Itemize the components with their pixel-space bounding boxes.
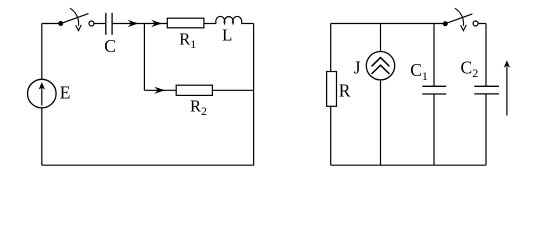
switch S1 blade <box>61 14 88 24</box>
label R1 <box>179 29 196 51</box>
source J lower chevron <box>372 65 390 74</box>
label J <box>354 58 361 78</box>
current arrow i1 (into R1) <box>151 20 162 27</box>
wire: L to top-right corner <box>241 23 253 25</box>
wire: right circuit bottom <box>331 164 486 166</box>
voltage arrow shaft (across C2) <box>506 67 508 116</box>
label C2 <box>461 58 479 81</box>
capacitor C1 bottom plate <box>422 93 446 95</box>
source E arrowhead <box>39 82 45 90</box>
switch S1 closing arc <box>70 8 79 26</box>
resistor R1 <box>167 18 204 28</box>
switch S2 open contact circle <box>473 21 478 26</box>
inductor L <box>216 16 242 23</box>
wire: C1 branch lower stub <box>433 94 435 165</box>
wire: right circuit left vertical (lower) <box>330 106 332 165</box>
source J upper chevron <box>372 58 390 67</box>
label R2 <box>190 97 207 119</box>
svg-text:L: L <box>222 26 232 45</box>
capacitor C2 top plate <box>474 85 499 87</box>
switch S1 pivot dot <box>58 21 63 26</box>
switch S1 open contact circle <box>89 21 94 26</box>
svg-text:C: C <box>104 36 116 56</box>
label R <box>339 81 351 101</box>
wire: R1 to L <box>204 23 216 25</box>
wire: left circuit left vertical (upper) <box>41 24 43 80</box>
voltage arrowhead (up) <box>504 60 510 68</box>
wire: left circuit top-left segment <box>42 23 59 25</box>
current source J <box>366 51 394 79</box>
svg-text:J: J <box>354 58 361 78</box>
capacitor C1 top plate <box>422 85 446 87</box>
current arrow i2 (into R2) <box>154 87 165 94</box>
switch S2 closing arc <box>455 8 464 26</box>
wire: left circuit bottom <box>42 164 254 166</box>
label E <box>60 83 71 103</box>
wire: C2 branch lower stub <box>485 94 487 165</box>
svg-text:E: E <box>60 83 71 103</box>
wire: left circuit left vertical (lower) <box>41 108 43 165</box>
resistor R <box>327 72 337 107</box>
wire: open contact to C2 corner <box>478 23 486 25</box>
wire: R2 to right vertical <box>212 89 253 91</box>
source E arrow shaft <box>41 87 43 106</box>
wire: J branch upper stub <box>380 24 382 52</box>
label C1 <box>410 60 428 83</box>
wire: right circuit top <box>331 23 444 25</box>
switch S2 pivot dot <box>443 21 448 26</box>
wire: capacitor C to junction node <box>113 23 145 25</box>
node junction vertical wire <box>143 24 145 91</box>
wire: right circuit left vertical (upper) <box>330 24 332 72</box>
voltage source E <box>28 79 57 108</box>
wire: junction to R1 <box>144 23 167 25</box>
wire: C1 branch upper stub <box>433 24 435 87</box>
wire: open contact to capacitor C <box>94 23 105 25</box>
wire: C2 branch upper stub <box>485 24 487 87</box>
wire: J branch lower stub <box>380 80 382 165</box>
wire: junction to R2 <box>144 89 176 91</box>
switch S2 blade <box>446 14 472 23</box>
svg-text:R: R <box>339 81 351 101</box>
current arrow i (before junction) <box>128 20 139 27</box>
wire: left circuit right vertical <box>253 24 255 166</box>
capacitor C right plate <box>111 13 113 35</box>
switch S1 arrowhead (down) <box>76 25 82 31</box>
capacitor C left plate <box>105 13 107 35</box>
resistor R2 <box>176 85 212 95</box>
label L <box>222 26 232 45</box>
label C <box>104 36 116 56</box>
switch S2 arrowhead (down) <box>461 25 467 31</box>
capacitor C2 bottom plate <box>474 93 499 95</box>
